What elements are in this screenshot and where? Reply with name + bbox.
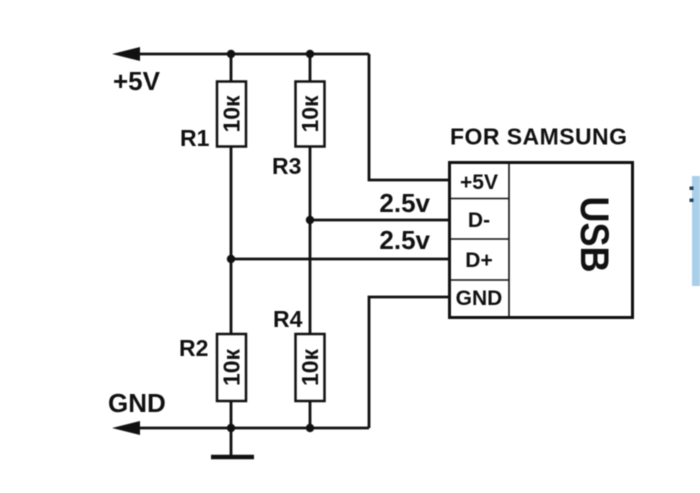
node junction D- tap (306, 216, 314, 224)
wire R3-R4 vertical (309, 146, 312, 428)
node junction R2 bottom (227, 424, 235, 432)
wire R1 top lead (230, 54, 233, 82)
svg-text:+5V: +5V (113, 66, 161, 96)
svg-text:2.5v: 2.5v (379, 225, 430, 255)
wire D+ to USB (231, 258, 448, 261)
svg-text:R3: R3 (272, 153, 301, 179)
GND rail wire (122, 427, 369, 430)
wire R3 top lead (309, 54, 312, 82)
wire right drop from rail to +5V pin (369, 54, 448, 180)
svg-text:R2: R2 (179, 335, 208, 361)
svg-text:D+: D+ (465, 249, 492, 272)
svg-text:GND: GND (108, 388, 166, 418)
sidebar dot 2 (690, 199, 694, 203)
sidebar dot 1 (690, 187, 694, 191)
svg-text:GND: GND (456, 287, 503, 310)
pin divider D+ / GND (448, 279, 509, 281)
resistor R4 10k (296, 334, 325, 401)
wire D- to USB (310, 219, 448, 222)
wire R1-R2 vertical (230, 146, 233, 428)
svg-text:R4: R4 (273, 306, 303, 332)
USB connector J1 outline (450, 163, 633, 318)
blue sidebar fragment (692, 176, 700, 286)
+5V rail wire (122, 53, 369, 56)
USB connector pin column divider (508, 161, 510, 318)
ground symbol (211, 428, 254, 457)
pin divider D- / D+ (448, 238, 509, 240)
pin divider +5V / D- (448, 198, 509, 200)
svg-text:10к: 10к (219, 348, 245, 386)
node junction D+ tap (227, 255, 235, 263)
node junction at R3 top (306, 50, 314, 58)
svg-text:10к: 10к (297, 348, 323, 386)
resistor R3 10k (296, 82, 325, 147)
GND rail arrow (112, 421, 140, 435)
svg-text:D-: D- (468, 209, 490, 232)
wire GND pin to rail (369, 297, 448, 428)
resistor R2 10k (217, 334, 246, 401)
node junction at R1 top (227, 50, 235, 58)
svg-text:10к: 10к (219, 95, 245, 133)
resistor R1 10k (217, 82, 246, 147)
svg-text:R1: R1 (180, 125, 210, 151)
svg-text:2.5v: 2.5v (379, 188, 430, 218)
svg-text:10к: 10к (297, 95, 323, 133)
+5V rail arrow (112, 47, 140, 61)
svg-text:+5V: +5V (460, 171, 498, 194)
svg-text:FOR SAMSUNG: FOR SAMSUNG (450, 124, 627, 150)
svg-text:USB: USB (572, 197, 616, 273)
node junction R4 bottom (306, 424, 314, 432)
